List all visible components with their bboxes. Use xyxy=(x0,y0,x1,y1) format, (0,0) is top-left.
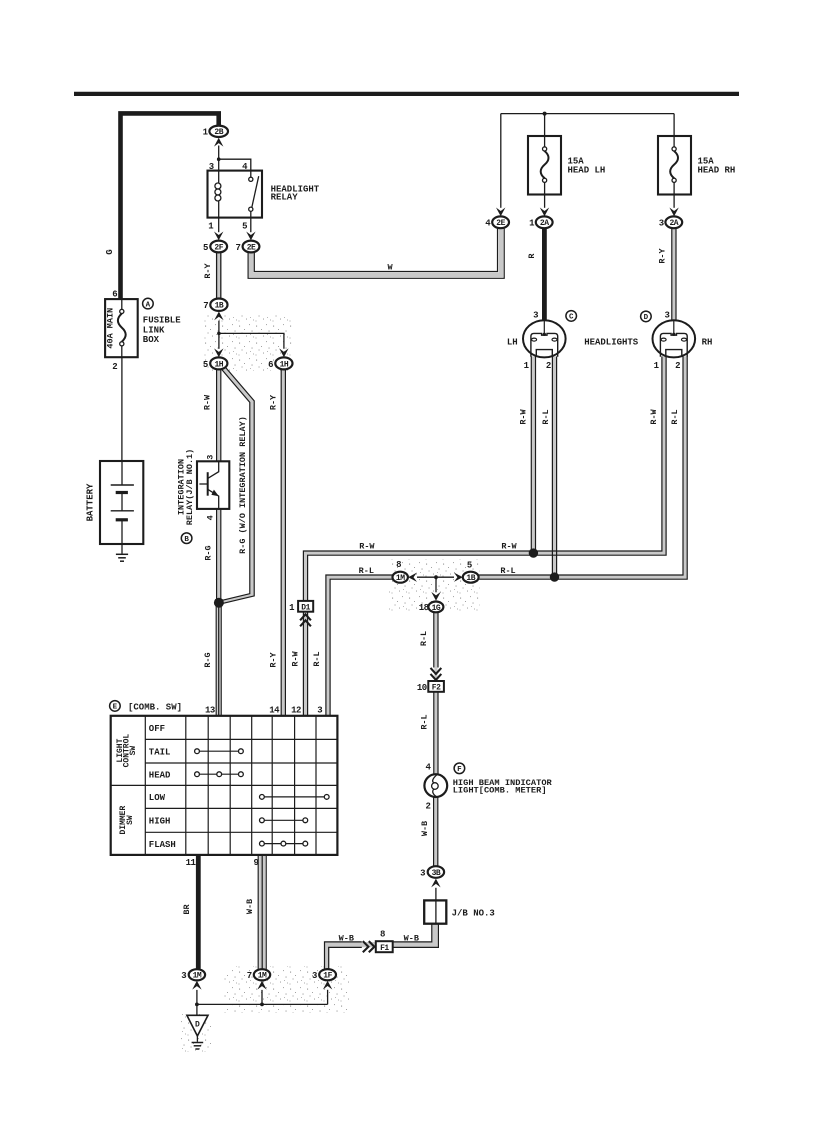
arrow into 3B from J/B No.3 xyxy=(431,879,440,888)
wire fuse LH to 1 2A xyxy=(540,195,549,217)
svg-text:RH: RH xyxy=(702,337,713,347)
svg-text:RELAY(J/B NO.1): RELAY(J/B NO.1) xyxy=(185,449,195,526)
svg-text:R-G: R-G xyxy=(203,545,213,560)
wire relay pin 1 to connector 2F xyxy=(208,218,223,241)
wire R (thick) from 2A to headlight LH xyxy=(527,228,545,320)
lamp headlight RH xyxy=(653,310,713,371)
wire W-B from J/B No.3 to F1 xyxy=(393,924,439,948)
connector 1 D1 xyxy=(289,601,313,613)
switch contacts HEAD xyxy=(195,772,244,777)
wire from 2B to headlight relay pins 3 and 4 xyxy=(209,146,251,172)
svg-text:LOW: LOW xyxy=(149,793,166,803)
node C xyxy=(566,311,577,322)
svg-text:R-Y: R-Y xyxy=(657,247,667,263)
svg-text:13: 13 xyxy=(205,705,215,715)
pin labels comb switch bottom xyxy=(186,858,259,868)
connector 18 1G xyxy=(419,602,444,614)
svg-text:18: 18 xyxy=(419,603,429,613)
svg-text:D: D xyxy=(195,1021,200,1030)
svg-text:A: A xyxy=(146,301,151,309)
svg-text:R-L: R-L xyxy=(419,714,429,729)
wire R-L from 1G to F2 xyxy=(419,612,438,667)
svg-text:HIGH: HIGH xyxy=(149,817,171,827)
svg-text:W-B: W-B xyxy=(404,933,419,943)
junction R-L xyxy=(550,572,559,581)
chevrons into D1 xyxy=(300,614,311,626)
svg-text:14: 14 xyxy=(269,705,280,715)
node D xyxy=(641,311,652,322)
svg-text:1B: 1B xyxy=(466,574,475,583)
svg-text:5: 5 xyxy=(203,243,208,253)
arrow into 2B xyxy=(214,138,223,147)
svg-text:LH: LH xyxy=(507,337,518,347)
node A xyxy=(143,298,154,309)
connector 7 1M xyxy=(247,969,271,981)
svg-text:2: 2 xyxy=(425,801,430,811)
svg-text:8: 8 xyxy=(380,930,385,940)
svg-text:R-L: R-L xyxy=(500,566,515,576)
svg-text:R-Y: R-Y xyxy=(269,651,279,667)
label HEADLIGHTS xyxy=(584,337,639,347)
svg-text:TAIL: TAIL xyxy=(149,748,171,758)
junction R-W xyxy=(529,548,538,557)
svg-text:3: 3 xyxy=(317,706,322,716)
arrow into 1M xyxy=(408,573,417,582)
svg-text:1F: 1F xyxy=(323,972,332,981)
svg-text:LIGHT[COMB. METER]: LIGHT[COMB. METER] xyxy=(453,786,547,796)
svg-text:R-W: R-W xyxy=(519,408,529,424)
svg-text:1: 1 xyxy=(208,222,214,232)
wire R-G (W/O integration relay) bypass xyxy=(222,367,255,603)
svg-text:BOX: BOX xyxy=(143,335,160,345)
wire R-Y from 6 1H to comb switch pin 14 xyxy=(268,369,285,716)
svg-text:D1: D1 xyxy=(301,604,310,613)
svg-text:W: W xyxy=(387,262,393,272)
svg-text:3B: 3B xyxy=(432,869,441,878)
wire G (thick) from bus bar to fusible link box and to connector 2B xyxy=(105,113,219,299)
svg-text:R-W: R-W xyxy=(649,408,659,424)
wire shading xyxy=(219,228,685,969)
wire from junction down to 1G xyxy=(435,577,437,592)
svg-text:3: 3 xyxy=(420,868,425,878)
svg-text:W-B: W-B xyxy=(245,899,255,914)
svg-text:R-W: R-W xyxy=(290,650,300,666)
wire W from 2E to 4 2E xyxy=(248,229,504,279)
power bus bar (top border line) xyxy=(74,92,739,96)
wire W-B from 1F to chevrons xyxy=(325,933,362,969)
switch contacts LOW xyxy=(260,795,330,800)
relay integration relay (J/B No.1) xyxy=(176,449,229,526)
switch contacts HIGH xyxy=(260,818,308,823)
svg-text:5: 5 xyxy=(203,360,208,370)
fuse 15A HEAD RH xyxy=(658,136,735,195)
svg-text:3: 3 xyxy=(664,310,669,320)
connector 6 1H xyxy=(268,357,292,369)
svg-text:W-B: W-B xyxy=(420,821,430,836)
svg-text:HEAD: HEAD xyxy=(149,771,171,781)
svg-text:J/B NO.3: J/B NO.3 xyxy=(452,909,495,919)
wire R-L from F2 to high beam indicator xyxy=(419,692,438,775)
wire from bus node to head fuses and 4 2E xyxy=(501,112,674,208)
svg-text:FUSIBLE: FUSIBLE xyxy=(143,315,181,325)
arrow into 7 1M xyxy=(257,981,266,990)
svg-text:[COMB. SW]: [COMB. SW] xyxy=(128,703,182,713)
connector 3 1M xyxy=(181,969,205,981)
connector 3 1F xyxy=(312,969,336,981)
svg-text:2E: 2E xyxy=(496,219,505,228)
svg-text:1M: 1M xyxy=(396,574,405,583)
svg-text:D: D xyxy=(644,314,649,322)
svg-text:F: F xyxy=(457,766,462,774)
svg-text:F2: F2 xyxy=(432,684,441,693)
svg-text:R-W: R-W xyxy=(359,542,375,552)
svg-text:7: 7 xyxy=(203,301,208,311)
svg-text:BATTERY: BATTERY xyxy=(86,483,96,521)
connector 1 2B xyxy=(203,126,228,138)
wire R-W from headlight LH pin 1 xyxy=(519,356,536,553)
connector 5 2F xyxy=(203,241,227,253)
wire R-Y from 2F to 1B xyxy=(203,252,221,299)
wire R-L from headlight LH pin 2 xyxy=(541,356,557,579)
svg-text:1H: 1H xyxy=(280,360,289,369)
svg-text:5: 5 xyxy=(467,560,472,570)
svg-text:1: 1 xyxy=(289,603,295,613)
svg-text:LINK: LINK xyxy=(143,325,165,335)
wire BR from comb switch pin 11 to 3 1M xyxy=(182,855,198,969)
wire R-W from comb switch pin 12 to D1 xyxy=(290,612,307,716)
svg-text:SW: SW xyxy=(126,815,135,825)
switch contacts TAIL xyxy=(195,749,244,754)
svg-text:6: 6 xyxy=(112,290,117,300)
svg-text:2A: 2A xyxy=(540,219,549,228)
wire fuse RH to 3 2A xyxy=(669,195,678,217)
stipple region near ground point xyxy=(180,1014,211,1052)
ground point D xyxy=(187,1015,208,1036)
svg-text:C: C xyxy=(569,314,574,322)
wire R-W from 5 1H to integration relay xyxy=(202,369,220,461)
wire between 1M and 1B xyxy=(417,575,454,579)
svg-text:R-L: R-L xyxy=(670,409,680,424)
connector 4 2E xyxy=(485,216,509,228)
svg-text:1M: 1M xyxy=(258,972,267,981)
connector 7 2E xyxy=(235,241,259,253)
wire W-B from indicator to 3B xyxy=(420,797,438,866)
svg-text:R-L: R-L xyxy=(541,409,551,424)
connector 1 2A xyxy=(529,216,553,228)
connector 8 1M xyxy=(393,560,408,583)
svg-text:OFF: OFF xyxy=(149,724,165,734)
wire W-B from comb switch pin 9 to 7 1M xyxy=(245,855,266,969)
svg-text:B: B xyxy=(184,536,189,544)
wire R-Y from 2A to headlight RH xyxy=(657,228,676,321)
svg-text:10: 10 xyxy=(417,683,427,693)
svg-text:R-G (W/O INTEGRATION RELAY): R-G (W/O INTEGRATION RELAY) xyxy=(238,416,248,554)
svg-text:R-G: R-G xyxy=(203,652,213,667)
connector 3 2A xyxy=(659,216,683,228)
svg-text:5: 5 xyxy=(242,222,247,232)
label fusible link box xyxy=(143,315,181,345)
label comb sw xyxy=(128,703,182,713)
chevrons into F2 xyxy=(431,668,442,680)
svg-text:2: 2 xyxy=(546,361,551,371)
arrow into 5 1H xyxy=(214,348,223,357)
svg-text:1: 1 xyxy=(529,219,535,229)
svg-text:SW: SW xyxy=(129,746,138,756)
stipple region around 1M/1B/1G connectors xyxy=(389,559,480,613)
wire ground net xyxy=(195,990,328,1016)
svg-text:1H: 1H xyxy=(214,360,223,369)
switch combination switch table xyxy=(111,716,338,855)
ground below battery xyxy=(116,554,128,561)
svg-text:4: 4 xyxy=(206,515,216,520)
svg-text:1: 1 xyxy=(654,361,660,371)
connector 5 1H xyxy=(203,357,228,369)
wire R-L horizontal net with RH pin 2 xyxy=(326,356,687,715)
svg-text:R-Y: R-Y xyxy=(203,262,213,278)
svg-text:4: 4 xyxy=(485,219,491,229)
stipple region around 1H connectors xyxy=(203,315,292,371)
svg-text:R-W: R-W xyxy=(202,394,212,410)
svg-text:F1: F1 xyxy=(380,944,389,953)
svg-text:R-L: R-L xyxy=(419,631,429,646)
connector 3 3B xyxy=(420,866,444,878)
svg-text:3: 3 xyxy=(533,310,538,320)
svg-text:7: 7 xyxy=(247,971,252,981)
arrow into 6 1H xyxy=(279,348,288,357)
svg-text:FLASH: FLASH xyxy=(149,840,176,850)
wire relay pin 5 to connector 2E xyxy=(242,218,256,241)
svg-text:12: 12 xyxy=(291,706,301,716)
wire R-G from integration relay to junction xyxy=(203,509,220,600)
arrow into 1F xyxy=(323,981,332,990)
connector 8 F1 xyxy=(376,930,393,953)
arrow into 4 2E xyxy=(496,208,505,217)
switch contacts FLASH xyxy=(260,841,308,846)
fuse 40A MAIN fusible link box xyxy=(105,290,138,372)
wire fusible link box to battery xyxy=(121,357,123,461)
svg-text:3: 3 xyxy=(312,971,317,981)
wire from 1B to 5 1H and 6 1H xyxy=(217,321,284,349)
svg-text:8: 8 xyxy=(396,560,401,570)
svg-text:2E: 2E xyxy=(247,243,256,252)
svg-text:3: 3 xyxy=(659,219,664,229)
svg-text:R-Y: R-Y xyxy=(268,394,278,410)
svg-text:3: 3 xyxy=(181,971,186,981)
svg-text:2B: 2B xyxy=(214,128,223,137)
svg-text:R-L: R-L xyxy=(359,566,374,576)
svg-text:HEADLIGHTS: HEADLIGHTS xyxy=(584,337,639,347)
node F xyxy=(454,763,465,774)
svg-text:R: R xyxy=(527,253,537,259)
svg-text:RELAY: RELAY xyxy=(271,193,299,203)
svg-text:1G: 1G xyxy=(432,604,441,613)
stipple region around bottom connectors xyxy=(224,966,350,1013)
wire R-W horizontal net with RH pin 1 xyxy=(303,356,666,600)
battery xyxy=(86,461,144,554)
svg-text:2A: 2A xyxy=(669,219,678,228)
svg-text:1B: 1B xyxy=(215,302,224,311)
node E xyxy=(110,701,121,712)
arrow into 1B xyxy=(214,312,223,321)
svg-text:1: 1 xyxy=(524,361,530,371)
pin labels comb switch top xyxy=(205,705,323,715)
fuse 15A HEAD LH xyxy=(528,136,605,195)
svg-text:4: 4 xyxy=(425,762,431,772)
connector 7 1B xyxy=(203,299,227,312)
node B xyxy=(181,533,192,544)
wire R-G from junction to comb switch pin 13 xyxy=(203,607,221,716)
svg-text:7: 7 xyxy=(235,243,240,253)
label R-L below pin 3 wire xyxy=(312,651,322,666)
arrow into 1B xyxy=(454,573,463,582)
arrow into 1G xyxy=(431,592,440,601)
svg-text:3: 3 xyxy=(206,455,216,460)
svg-text:R-W: R-W xyxy=(501,542,517,552)
connector 5 1B xyxy=(463,560,479,583)
svg-text:1: 1 xyxy=(203,128,209,138)
svg-text:40A MAIN: 40A MAIN xyxy=(105,308,115,349)
svg-text:2: 2 xyxy=(675,361,680,371)
relay headlight relay xyxy=(208,171,320,218)
svg-text:HEAD RH: HEAD RH xyxy=(698,166,736,176)
svg-text:HEAD LH: HEAD LH xyxy=(568,166,606,176)
svg-text:R-L: R-L xyxy=(312,651,322,666)
lamp high beam indicator light xyxy=(424,774,447,797)
svg-text:G: G xyxy=(105,249,115,254)
svg-text:2: 2 xyxy=(112,362,117,372)
svg-text:1M: 1M xyxy=(193,972,202,981)
junction block J/B No.3 xyxy=(424,888,495,924)
connector 10 F2 xyxy=(417,681,444,693)
svg-text:6: 6 xyxy=(268,360,273,370)
lamp headlight LH xyxy=(507,310,566,371)
svg-text:BR: BR xyxy=(182,904,192,915)
svg-text:2F: 2F xyxy=(214,243,223,252)
junction R-G xyxy=(214,598,224,608)
arrow into 3 1M xyxy=(192,981,201,990)
svg-text:11: 11 xyxy=(186,858,197,868)
svg-text:W-B: W-B xyxy=(339,933,354,943)
label high beam indicator xyxy=(453,778,553,796)
svg-text:E: E xyxy=(113,704,118,712)
chevrons into F1 xyxy=(363,941,375,952)
ground symbol xyxy=(192,1036,204,1049)
